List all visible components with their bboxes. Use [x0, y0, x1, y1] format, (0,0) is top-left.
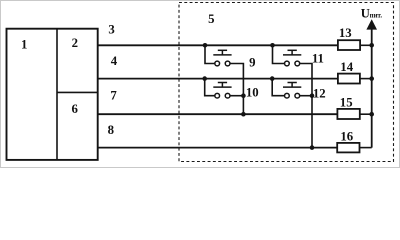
wire from switch 10 output to vertical: [230, 95, 244, 97]
node R13/rail: [369, 43, 374, 48]
divider between 2 and 6: [57, 91, 98, 93]
wire R16 to rail: [360, 147, 372, 149]
dashed box 5: [179, 3, 394, 162]
wire from switch 12 output to vertical: [300, 95, 312, 97]
svg-text:9: 9: [249, 55, 255, 69]
wire R14 to rail: [360, 78, 372, 80]
wire from node to switch 9 input: [205, 45, 215, 63]
divider between 1 and 2/6: [56, 29, 58, 160]
svg-text:15: 15: [340, 95, 353, 109]
resistor R15: [337, 109, 359, 119]
svg-text:13: 13: [339, 26, 352, 40]
svg-text:5: 5: [208, 12, 214, 26]
wire 7: [98, 113, 338, 115]
svg-text:10: 10: [246, 85, 259, 99]
push-button SB11: [283, 50, 301, 66]
resistor R14: [338, 74, 360, 84]
node: switch 11/12 output on wire 8: [310, 145, 315, 150]
block U1 outer box (units 1/2/6): [7, 29, 98, 160]
svg-text:8: 8: [108, 123, 114, 137]
svg-text:12: 12: [313, 86, 326, 100]
wire 4: [98, 78, 338, 80]
wire from node to switch 12 input: [272, 79, 284, 96]
node: junction of switch 12 output: [310, 93, 315, 98]
svg-text:3: 3: [108, 22, 114, 36]
supply rail Uпит: [371, 29, 373, 148]
wire from switch 9 output down to wire 7: [230, 64, 244, 115]
resistor R13: [338, 40, 360, 50]
svg-text:1: 1: [21, 37, 27, 51]
wire from node to switch 10 input: [205, 79, 215, 96]
node R14/rail: [369, 76, 374, 81]
page frame: [1, 1, 400, 168]
svg-text:6: 6: [71, 102, 78, 116]
node: junction of switch 10 output: [241, 93, 246, 98]
arrow to Uпит: [366, 19, 377, 29]
node R15/rail: [369, 112, 374, 117]
svg-text:4: 4: [111, 54, 118, 68]
svg-text:11: 11: [312, 51, 324, 65]
wire R13 to rail: [360, 44, 372, 46]
resistor R16: [337, 143, 359, 153]
svg-text:16: 16: [340, 129, 353, 143]
svg-text:пит.: пит.: [370, 12, 383, 19]
node: tap of wire 3 to switch 11: [270, 43, 275, 48]
svg-text:7: 7: [110, 88, 117, 102]
wire R15 to rail: [360, 113, 372, 115]
node: tap of wire 3 to switch 9: [203, 43, 208, 48]
svg-text:2: 2: [72, 36, 78, 50]
push-button SB12: [283, 83, 301, 99]
wire from node to switch 11 input: [273, 45, 285, 63]
wire 3: [98, 44, 338, 46]
wire 8: [98, 147, 338, 149]
svg-text:14: 14: [340, 60, 353, 74]
node: tap of wire 4 to switch 12: [270, 76, 275, 81]
wire from switch 11 output down to wire 8: [300, 64, 312, 148]
push-button SB10: [213, 83, 231, 99]
node: switch 9/10 output on wire 7: [241, 112, 246, 117]
push-button SB9: [213, 50, 231, 66]
svg-text:U: U: [361, 6, 370, 20]
node: tap of wire 4 to switch 10: [202, 76, 207, 81]
